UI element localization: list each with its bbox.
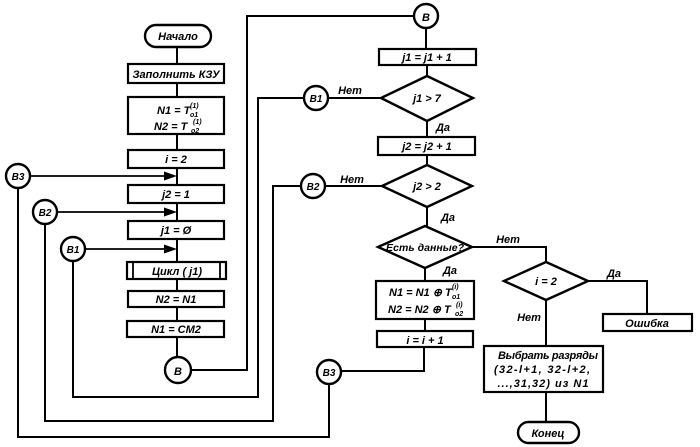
decision diamond i=2 <box>504 262 588 300</box>
wire Выбрать to Конец <box>545 392 547 422</box>
connector B bottom left <box>165 357 191 383</box>
svg-text:В3: В3 <box>12 172 25 183</box>
svg-text:Ошибка: Ошибка <box>625 318 669 330</box>
decision diamond j1>7 <box>381 76 473 121</box>
process box N1=To1(1) N2=To2(1) <box>128 97 224 135</box>
svg-text:В3: В3 <box>323 368 336 379</box>
wire j2=1 to j1=0 <box>176 203 178 221</box>
svg-text:В2: В2 <box>39 208 52 219</box>
svg-text:Нет: Нет <box>340 174 364 186</box>
svg-text:В: В <box>174 366 182 378</box>
wire В2 right to diamond <box>325 185 382 187</box>
terminal Конец <box>518 422 579 443</box>
svg-text:(1): (1) <box>190 103 199 110</box>
svg-text:(1): (1) <box>193 119 202 126</box>
svg-text:Нет: Нет <box>338 85 362 97</box>
wire j1=j1+1 to decision j1>7 <box>426 65 428 76</box>
wire j1=O to Цикл <box>176 239 178 262</box>
svg-text:Выбрать разряды: Выбрать разряды <box>498 350 599 362</box>
svg-text:В1: В1 <box>310 94 323 105</box>
svg-text:о1: о1 <box>452 294 460 301</box>
svg-text:N1 = N1 ⊕ T: N1 = N1 ⊕ T <box>389 287 453 299</box>
wire j2>2 to decision Есть данные <box>426 207 428 226</box>
svg-text:Да: Да <box>435 122 450 134</box>
process box Ошибка <box>603 314 692 331</box>
svg-text:о1: о1 <box>190 112 198 119</box>
wire loop В1 right to В1 left <box>73 98 304 397</box>
wire Есть данные to xor box <box>424 268 426 281</box>
svg-text:N2 = N1: N2 = N1 <box>156 294 197 306</box>
connector В1 right <box>304 86 328 110</box>
connector В2 right <box>301 174 325 198</box>
wire N2=N1 to N1=СМ2 <box>176 307 178 321</box>
svg-text:о2: о2 <box>191 128 199 135</box>
wire Начало to Заполнить КЗУ <box>176 47 178 64</box>
connector В3 right <box>317 360 341 384</box>
decision diamond Есть данные? <box>378 226 472 268</box>
svg-text:N2 = T: N2 = T <box>154 121 189 133</box>
wire arrow В2 into column <box>57 208 177 217</box>
svg-text:Цикл ( j1): Цикл ( j1) <box>152 266 202 278</box>
wire Заполнить to N1N2 init <box>176 83 178 97</box>
svg-text:Заполнить КЗУ: Заполнить КЗУ <box>132 69 221 81</box>
svg-text:i = 2: i = 2 <box>165 154 187 166</box>
svg-text:Да: Да <box>442 265 457 277</box>
wire i=2 to j2=1 <box>176 168 178 185</box>
wire В1 right to diamond <box>328 97 381 99</box>
connector В3 left <box>6 164 30 188</box>
svg-text:j2 = 1: j2 = 1 <box>160 189 190 201</box>
process box j2=j2+1 <box>378 137 475 155</box>
svg-text:В2: В2 <box>307 182 320 193</box>
svg-text:(i): (i) <box>456 302 463 309</box>
wire Цикл to N2=N1 <box>176 279 178 291</box>
svg-text:Конец: Конец <box>532 428 565 440</box>
svg-text:i = i + 1: i = i + 1 <box>406 335 443 347</box>
wire N1=СМ2 to connector B <box>176 337 178 357</box>
wire i=i+1 to connector В3 right <box>341 347 424 371</box>
svg-text:Нет: Нет <box>496 234 520 246</box>
process box j1=O <box>128 221 224 239</box>
svg-text:j1 > 7: j1 > 7 <box>411 93 442 105</box>
svg-text:j2 > 2: j2 > 2 <box>411 181 441 193</box>
decision diamond j2>2 <box>382 165 472 207</box>
connector В1 left <box>61 237 85 261</box>
wire j1>7 to j2=j2+1 <box>426 121 428 137</box>
wire B to j1=j1+1 <box>425 28 427 49</box>
svg-text:j1 = Ø: j1 = Ø <box>159 225 192 237</box>
svg-text:Да: Да <box>606 268 621 280</box>
svg-text:В1: В1 <box>67 245 80 256</box>
wire connector B to top connector B <box>191 16 414 370</box>
wire loop В3 right to В3 left <box>18 188 329 437</box>
process box i=i+1 <box>377 331 473 347</box>
wire loop В2 right to В2 left <box>45 186 301 421</box>
wire N1N2 init to i=2 <box>176 134 178 150</box>
wire xor box to i=i+1 <box>424 319 426 331</box>
predefined process box Цикл (j1) <box>127 262 226 279</box>
svg-text:(32-l+1, 32-l+2,: (32-l+1, 32-l+2, <box>494 364 590 376</box>
wire Да i=2 to Ошибка <box>588 281 647 314</box>
wire arrow В1 into column <box>85 245 177 254</box>
svg-text:N2 = N2 ⊕ T: N2 = N2 ⊕ T <box>388 304 452 316</box>
svg-text:В: В <box>422 12 430 24</box>
svg-text:Есть данные?: Есть данные? <box>386 242 465 254</box>
process box N1=СМ2 <box>127 321 224 337</box>
wire arrow В3 into column <box>30 172 177 181</box>
svg-text:j2 = j2 + 1: j2 = j2 + 1 <box>400 141 452 153</box>
process box Выбрать разряды <box>484 346 603 392</box>
svg-text:j1 = j1 + 1: j1 = j1 + 1 <box>400 52 452 64</box>
svg-text:N1 = T: N1 = T <box>157 105 192 117</box>
svg-text:Да: Да <box>440 212 455 224</box>
terminal Начало <box>145 25 211 47</box>
process box N1=N1 xor To1(i) N2=N2 xor To2(i) <box>376 281 474 319</box>
svg-text:Начало: Начало <box>158 31 198 43</box>
svg-text:i = 2: i = 2 <box>535 276 557 288</box>
wire Нет Есть данные to decision i=2 <box>472 247 546 262</box>
connector B top right <box>414 4 438 28</box>
process box j2=1 <box>128 185 224 203</box>
process box N2=N1 <box>128 291 224 307</box>
connector В2 left <box>33 200 57 224</box>
wire j2=j2+1 to decision j2>2 <box>426 155 428 165</box>
svg-text:о2: о2 <box>455 311 463 318</box>
process box i=2 <box>128 150 224 168</box>
svg-text:N1 = СМ2: N1 = СМ2 <box>151 324 201 336</box>
svg-text:...,31,32) из N1: ...,31,32) из N1 <box>498 378 589 390</box>
svg-text:(i): (i) <box>452 284 459 291</box>
process box Заполнить КЗУ <box>128 64 224 83</box>
wire Нет i=2 to Выбрать box <box>545 300 547 346</box>
svg-text:Нет: Нет <box>517 312 541 324</box>
process box j1=j1+1 <box>379 49 476 65</box>
